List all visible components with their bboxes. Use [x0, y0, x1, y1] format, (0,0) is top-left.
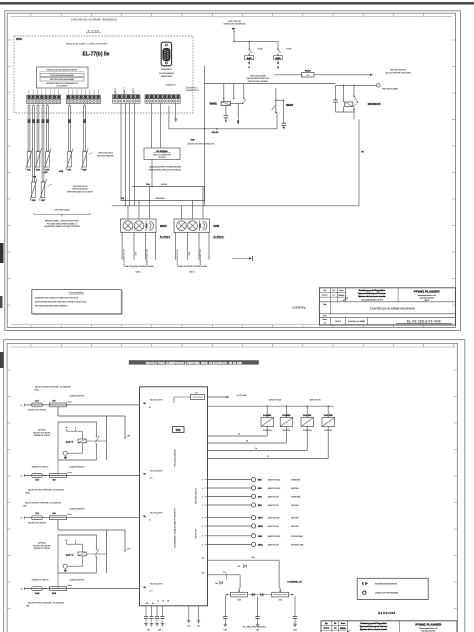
svg-text:9aB1: 9aB1	[275, 58, 281, 60]
row 3 header text	[23, 501, 61, 507]
capacitor C-E left	[223, 617, 228, 632]
svg-text:VER NAT ALARME: VER NAT ALARME	[382, 87, 398, 90]
svg-text:Ne: Ne	[333, 290, 335, 292]
svg-text:a7: a7	[149, 520, 151, 522]
svg-text:HMNOSTCHNELI + PROSTOVI MOTORU: HMNOSTCHNELI + PROSTOVI MOTORU /	[45, 221, 80, 223]
relay Pa21 E1B	[208, 406, 335, 459]
terminal strip X4	[145, 95, 180, 104]
wire top header	[233, 41, 278, 42]
node MP	[232, 28, 236, 32]
svg-text:a.75: a.75	[149, 478, 153, 480]
svg-text:Thubergabedarlehen & wird: Thubergabedarlehen & wird	[361, 298, 383, 301]
svg-text:VALOR AJUSTE: VALOR AJUSTE	[150, 512, 163, 515]
svg-text:17)1: 17)1	[176, 429, 181, 432]
svg-text:MOTOR AUXILIAR: MOTOR AUXILIAR	[72, 188, 88, 191]
svg-text:E1&7E7Ea: E1&7E7Ea	[293, 306, 306, 310]
svg-text:CAB. 1: CAB. 1	[136, 271, 142, 274]
svg-text:7 N W: 7 N W	[189, 251, 191, 256]
svg-text:K7B: K7B	[36, 170, 41, 172]
page 1 frame ticks	[31, 13, 424, 327]
svg-text:ZONA DE AJUSTE: ZONA DE AJUSTE	[69, 395, 85, 398]
svg-text:94ap: 94ap	[323, 304, 327, 306]
svg-text:DO CLIENTE: DO CLIENTE	[57, 86, 69, 88]
alarm sounder group NZ5I	[174, 187, 225, 274]
thermistor probe K7P	[44, 104, 51, 172]
svg-text:PATINE DO TRILHO: PATINE DO TRILHO	[32, 465, 49, 468]
svg-text:NKZ3tKZ5: NKZ3tKZ5	[368, 102, 381, 106]
row 2 caption	[25, 488, 64, 494]
svg-text:9ame: 9ame	[339, 290, 343, 292]
svg-text:BILLETO DO TRILHO: BILLETO DO TRILHO	[28, 410, 46, 412]
svg-text:7&B: 7&B	[145, 603, 148, 605]
client box caption	[149, 166, 182, 172]
feedback loop box b.pfe/2	[58, 535, 106, 573]
svg-text:F1a5t: F1a5t	[305, 69, 311, 72]
wire row1 drop to loop bus	[58, 407, 125, 416]
svg-text:b.pfe / 1: b.pfe / 1	[66, 441, 74, 443]
svg-text:ZASVLHECHNI EXTERNY CENTRALY.: ZASVLHECHNI EXTERNY CENTRALY. NE NA RUVO…	[35, 301, 88, 304]
svg-text:2a: 2a	[238, 434, 240, 436]
svg-text:ALB3 NOT 1: ALB3 NOT 1	[132, 88, 135, 98]
relay Pa21#N1	[208, 406, 274, 437]
svg-text:POS.FIM.TAM: POS.FIM.TAM	[291, 535, 303, 538]
page 1 outer frame	[5, 11, 461, 331]
IC left pin a.75	[144, 469, 164, 479]
svg-text:CONTROLE ALARME INCENDIO: CONTROLE ALARME INCENDIO	[71, 19, 117, 22]
svg-text:1CF: 1CF	[202, 558, 205, 560]
svg-text:98%03s: 98%03s	[340, 628, 346, 630]
svg-text:P4): P4)	[121, 197, 124, 200]
wire to ver nat motor with arrow	[314, 74, 373, 76]
wire x168.9 up	[168, 106, 170, 129]
svg-text:K8P: K8P	[83, 170, 88, 172]
page 2 outer frame	[4, 340, 465, 632]
svg-text:15B: 15B	[258, 536, 262, 538]
thermistor probe K7L	[25, 104, 32, 172]
svg-text:TEPLOTNI CIDLO: TEPLOTNI CIDLO	[73, 186, 88, 188]
wire long bus to P4	[112, 205, 359, 207]
svg-text:PRO ZARIZHENI NAPLCEN UZIVATEL: PRO ZARIZHENI NAPLCEN UZIVATEL !	[35, 305, 69, 308]
svg-text:2s: 2s	[21, 518, 23, 520]
svg-text:(BLOCO DIETRE 28 ELETRI): (BLOCO DIETRE 28 ELETRI)	[385, 72, 410, 74]
relay NKZ3tKZ5 cluster	[333, 85, 381, 120]
svg-text:SINTO PLUGADO DO: SINTO PLUGADO DO	[153, 153, 172, 156]
wire bus right vertical	[204, 187, 206, 206]
svg-text:CONTROLE ALARME INCENDIO: CONTROLE ALARME INCENDIO	[370, 306, 416, 310]
svg-text:BOLETO DO TRILHO: BOLETO DO TRILHO	[33, 432, 51, 434]
svg-text:II (+2)+5#B: II (+2)+5#B	[237, 395, 247, 397]
svg-text:MOTORE ALERTA ALARME: MOTORE ALERTA ALARME	[50, 78, 75, 81]
relay Pa21 E11	[208, 406, 314, 451]
svg-text:DESCER: DESCER	[325, 430, 333, 432]
svg-text:c47: c47	[65, 427, 68, 429]
note box UPOZORNENIA	[32, 290, 122, 315]
wire X4 to client box 2	[160, 103, 162, 148]
svg-text:DOTAHNE UCEL KABELU B! NAPOJUJ: DOTAHNE UCEL KABELU B! NAPOJUJI POUZE NA	[35, 297, 79, 300]
node P4a	[146, 183, 152, 188]
loop 2 caption	[33, 542, 51, 551]
svg-text:EN-1(231+(8181): EN-1(231+(8181)	[175, 449, 177, 466]
output pin 6E2	[208, 494, 301, 498]
capacitor C-B right	[293, 617, 298, 632]
svg-text:TEPLOTNI CIDLO: TEPLOTNI CIDLO	[98, 153, 113, 155]
svg-text:DIR.: DIR.	[26, 606, 30, 608]
svg-text:SANCYO ESQL: SANCYO ESQL	[268, 487, 281, 490]
svg-text:a.71: a.71	[149, 591, 153, 593]
wiper arrows sides	[225, 594, 294, 596]
svg-text:Systeme sind an unsere zuruckz: Systeme sind an unsere zuruckz	[360, 628, 387, 631]
svg-text:Typennachweisung und Lizenzen: Typennachweisung und Lizenzen	[358, 293, 386, 295]
svg-text:VALOR TEORICO PROFUND. DO GANC: VALOR TEORICO PROFUND. DO GANCHO	[35, 385, 72, 388]
page 2 inverted header strip	[129, 360, 259, 365]
svg-text:E: E	[362, 582, 364, 586]
terminal strip X1	[27, 95, 61, 104]
page 1 inner frame	[7, 13, 455, 327]
svg-text:Pa (N1E1B) - N1: Pa (N1E1B) - N1	[288, 582, 302, 584]
svg-text:(ZELROROVY KABEL ZOLOVAT DOZIR: (ZELROROVY KABEL ZOLOVAT DOZIROVE	[44, 225, 80, 228]
svg-text:8.1: 8.1	[333, 295, 335, 297]
controller block U1	[140, 387, 208, 606]
diode +19	[237, 565, 247, 568]
svg-text:FLS#B: FLS#B	[286, 48, 292, 50]
bracket teplotni cidlo	[34, 210, 90, 229]
IC left pin a1	[144, 399, 164, 409]
svg-text:CLIENTE: CLIENTE	[158, 157, 166, 159]
terminal strip X2	[66, 95, 100, 104]
svg-text:VER NAT MOTOR: VER NAT MOTOR	[390, 69, 406, 72]
wire center tap down	[257, 596, 259, 616]
svg-text:19a: 19a	[215, 583, 218, 585]
page 1 ruler line bottom	[11, 324, 452, 326]
wire vertical bus x125	[124, 416, 126, 551]
wire relay header	[208, 405, 335, 407]
svg-text:ZONA DE AJUSTE: ZONA DE AJUSTE	[69, 578, 85, 581]
svg-text:BILLETO DO TRILHO: BILLETO DO TRILHO	[28, 522, 46, 524]
svg-text:VAL. REAL PROF. GANCHO: VAL. REAL PROF. GANCHO	[242, 626, 266, 629]
svg-text:POS.END.TAM: POS.END.TAM	[291, 544, 304, 547]
svg-text:ALB3 ANT 1: ALB3 ANT 1	[114, 88, 117, 98]
page 2 frame ticks	[7, 343, 457, 608]
svg-text:TEPLOTNI CIDLO: TEPLOTNI CIDLO	[54, 210, 70, 212]
wire vertical bus x106	[105, 416, 107, 573]
label ver nat motor	[385, 69, 410, 75]
note teplotni cidlo motor principal	[89, 153, 114, 158]
svg-text:PATINE DO TRILHO: PATINE DO TRILHO	[34, 434, 51, 437]
measure row 1 resistors 1s7 2t7	[21, 395, 140, 412]
svg-text:8.1: 8.1	[334, 628, 336, 630]
svg-text:SANCYO DIR: SANCYO DIR	[268, 525, 280, 528]
wire X3 down 2	[124, 103, 126, 206]
svg-text:LEVANTAR: LEVANTAR	[291, 496, 301, 499]
svg-text:NZ5I: NZ5I	[214, 224, 220, 228]
svg-text:VAROVANI: VAROVANI	[155, 197, 165, 200]
IC bottom pins with caps and grounds	[144, 606, 165, 632]
svg-text:b: b	[75, 540, 76, 542]
svg-text:REGULACAO NA TAMPA FRONTAL: REGULACAO NA TAMPA FRONTAL	[47, 68, 78, 71]
page 2 inner frame	[7, 343, 457, 632]
terminal strip X3	[113, 95, 140, 104]
terminal labels above X1 X2	[29, 90, 98, 95]
list box regulacao	[37, 67, 89, 88]
svg-text:19: 19	[162, 601, 164, 603]
svg-text:LOGICA DO PROGRAMA: LOGICA DO PROGRAMA	[375, 592, 399, 595]
svg-text:ESPECIFICACAO DO CLIENTE: ESPECIFICACAO DO CLIENTE	[67, 190, 94, 193]
row 4 caption	[26, 601, 64, 607]
svg-text:VALVULA PROP. ALIMENTACAO E PR: VALVULA PROP. ALIMENTACAO E PROFUND. PRO…	[146, 362, 242, 365]
wire X3 down 4	[134, 103, 136, 206]
svg-text:2(a: 2(a	[325, 623, 328, 625]
svg-text:FLS#B: FLS#B	[257, 48, 263, 50]
svg-text:Exportgesellschaft: Exportgesellschaft	[420, 296, 434, 299]
svg-text:Pa21#M1: Pa21#M1	[282, 415, 290, 417]
svg-text:4 NKT MOTOR: 4 NKT MOTOR	[228, 21, 241, 23]
IC inner module 17)1	[173, 427, 185, 433]
svg-text:LEVANTAR: LEVANTAR	[291, 479, 301, 482]
svg-text:APLICAO: APLICAO	[38, 542, 46, 545]
measure row 2 resistors 7s8 2t8	[21, 465, 140, 481]
svg-text:CENALUS (L)UFEN POZARNU ALARM: CENALUS (L)UFEN POZARNU ALARM	[123, 265, 154, 268]
output pin 8E2	[208, 503, 300, 507]
scan top dark band	[0, 2, 474, 5]
svg-text:MB.9: MB.9	[425, 300, 429, 302]
output pin 15B	[208, 534, 304, 538]
svg-text:2b: 2b	[255, 448, 257, 450]
svg-text:AKTIVACE SANCYO: AKTIVACE SANCYO	[195, 487, 198, 504]
svg-text:9a81: 9a81	[247, 58, 253, 60]
svg-text:MOTORI ALERTA ALARME: MOTORI ALERTA ALARME	[50, 74, 74, 77]
svg-text:FRONTE PAN. OPERAD.: FRONTE PAN. OPERAD.	[248, 80, 269, 83]
svg-text:SANCYO ESQL: SANCYO ESQL	[268, 535, 281, 538]
svg-text:c47: c47	[65, 540, 68, 542]
wire horizontal y83.5	[205, 83, 336, 85]
svg-text:1t51: 1t51	[237, 599, 241, 602]
svg-text:2s: 2s	[21, 405, 23, 407]
thermistor probe K7L right	[66, 104, 73, 172]
svg-text:SANCYO ESQ: SANCYO ESQ	[268, 517, 280, 520]
svg-text:DIR.: DIR.	[23, 506, 27, 508]
feedback loop box b.pfe/1	[58, 422, 106, 460]
svg-text:VALOR AJUSTE: VALOR AJUSTE	[150, 399, 163, 402]
fuse chain 9aB1 with contact FLS-B	[274, 42, 293, 69]
wire client box to node P4a	[151, 160, 153, 187]
svg-text:DESCER: DESCER	[291, 518, 299, 520]
svg-text:PF&NZ PLASSER: PF&NZ PLASSER	[414, 289, 441, 293]
svg-text:VALOR TEORICO PROFUND. DO GANC: VALOR TEORICO PROFUND. DO GANCHO	[25, 501, 62, 504]
svg-text:LEVANTAR: LEVANTAR	[303, 429, 313, 432]
svg-text:PvZB: PvZB	[59, 171, 64, 173]
diode pair between pots	[248, 593, 272, 596]
svg-text:VALOR TEORICO PROFUND. DO GANC: VALOR TEORICO PROFUND. DO GANCHO	[28, 488, 65, 491]
svg-text:98%03s: 98%03s	[339, 295, 345, 297]
svg-text:1a: 1a	[157, 601, 159, 603]
svg-text:Q: Q	[277, 67, 279, 69]
note teplotni cidlo motor auxiliar	[48, 184, 94, 193]
svg-text:EL-77(b) IIe: EL-77(b) IIe	[83, 52, 110, 58]
svg-text:(ATRAS) VAR.PERT.VIBRACOES: (ATRAS) VAR.PERT.VIBRACOES	[187, 143, 215, 146]
svg-text:LEVANTAR: LEVANTAR	[263, 429, 273, 432]
svg-text:GIRADORES: GIRADORES	[161, 75, 173, 78]
label 17a with diode 19a	[215, 572, 227, 585]
svg-text:b: b	[75, 427, 76, 429]
page 1 subtitle	[86, 30, 101, 33]
labels above strip X3	[114, 87, 135, 98]
svg-text:55a52: 55a52	[210, 103, 218, 106]
IC bottom pins right with grounds	[187, 606, 200, 628]
svg-text:SANCYO DIR: SANCYO DIR	[268, 544, 280, 547]
installation dashed box B151	[14, 36, 193, 113]
fuse F1a5t	[275, 69, 315, 77]
svg-text:Systeme sind an unsere zuruckz: Systeme sind an unsere zuruckz	[358, 295, 385, 298]
svg-text:7 N W: 7 N W	[135, 251, 137, 256]
title block page 2 (cut off)	[321, 621, 457, 632]
wire row3 drop to loop bus	[58, 520, 125, 530]
capacitor C-5E center	[255, 617, 260, 632]
relay 55a52	[210, 84, 246, 125]
svg-text:ZONA DE AJUSTE: ZONA DE AJUSTE	[69, 508, 85, 511]
svg-text:27: 27	[267, 456, 269, 458]
svg-text:16-39.2: 16-39.2	[335, 321, 341, 323]
svg-text:SISTEMA DO MONITOR: SISTEMA DO MONITOR	[375, 582, 398, 585]
wire X3 down 3	[129, 103, 131, 206]
arrow terminal right of alarm groups	[232, 256, 252, 261]
potentiometer 1t52	[272, 590, 289, 602]
svg-text:VALOR AJUSTE: VALOR AJUSTE	[150, 469, 163, 472]
svg-text:c5am: c5am	[67, 585, 72, 587]
label ver nat alarme block	[247, 74, 270, 83]
svg-text:ZONA DE AJUSTE: ZONA DE AJUSTE	[69, 465, 85, 468]
svg-text:ESQL.: ESQL.	[25, 493, 31, 495]
svg-text:PATINE DO TRILHO: PATINE DO TRILHO	[32, 578, 49, 581]
svg-text:1B8: 1B8	[202, 572, 205, 574]
terminal 17F	[124, 548, 131, 551]
svg-text:1&a: 1&a	[187, 626, 190, 628]
svg-text:ALB7(NOT) 2: ALB7(NOT) 2	[186, 86, 197, 89]
wire loop1 bottom link	[57, 460, 59, 476]
svg-text:SANCYO ESQL: SANCYO ESQL	[268, 479, 281, 482]
svg-text:9ame: 9ame	[341, 623, 345, 625]
wire 1CF to pot 1t52	[202, 557, 281, 590]
svg-text:INSTALACAO COMPL. J UDER UCH N: INSTALACAO COMPL. J UDER UCH N RIZIG	[66, 43, 108, 46]
svg-text:BILLETO DO TRILHO: BILLETO DO TRILHO	[33, 545, 51, 547]
svg-text:ZONA MAGID. INVAL/ZONED PYINGU: ZONA MAGID. INVAL/ZONED PYINGUSY 8	[174, 507, 177, 547]
svg-text:NZ+2N: NZ+2N	[212, 132, 219, 134]
svg-text:2s: 2s	[21, 476, 23, 478]
svg-text:a1: a1	[149, 407, 151, 409]
svg-text:UPOZORNENIA :: UPOZORNENIA :	[69, 292, 85, 295]
wire left vertical x204.5	[204, 84, 206, 201]
svg-text:1t52: 1t52	[278, 599, 282, 602]
IC left pin a7	[144, 512, 164, 522]
alarm sounder group NZ5U	[121, 187, 172, 274]
output pin 8E1	[208, 486, 300, 490]
svg-text:ALARM: ALARM	[161, 183, 168, 186]
wire left wiper down	[224, 596, 226, 617]
scan left dark marks	[0, 243, 4, 263]
svg-text:EL-F3 2E5-3.F2-YNF: EL-F3 2E5-3.F2-YNF	[407, 320, 441, 324]
svg-text:c5am: c5am	[67, 514, 72, 516]
svg-text:Pa21 E1B: Pa21 E1B	[324, 415, 333, 417]
svg-text:29: 29	[246, 441, 248, 443]
terminal 17B	[124, 435, 131, 438]
svg-text:POUZIVAT OBVODOVEHO KABEL / 3: POUZIVAT OBVODOVEHO KABEL / 3	[47, 222, 77, 225]
svg-text:Na: Na	[152, 603, 154, 605]
wire NZ+2N bus	[169, 128, 277, 134]
svg-text:VER NAT ALARME: VER NAT ALARME	[250, 74, 266, 77]
svg-text:B151: B151	[16, 38, 22, 41]
potentiometer 1t51	[231, 590, 248, 602]
svg-text:DESCER: DESCER	[291, 488, 299, 490]
svg-text:CENALUS (L)UFEN POZARNU ALARM: CENALUS (L)UFEN POZARNU ALARM	[177, 265, 208, 268]
svg-text:Typennachweisung und Lizenzen: Typennachweisung und Lizenzen	[360, 626, 388, 628]
svg-text:SANCYO ESQL: SANCYO ESQL	[269, 399, 282, 402]
svg-text:VBP: VBP	[41, 200, 46, 202]
IC pin ticks right edge	[202, 479, 207, 546]
svg-text:Pa21 E11: Pa21 E11	[303, 415, 311, 417]
wire IC pin to arrow II	[208, 395, 247, 398]
output pin 15Ba	[208, 542, 304, 546]
svg-text:1:1: 1:1	[324, 322, 326, 324]
svg-text:1&a: 1&a	[197, 626, 200, 628]
loop 1 caption	[33, 429, 51, 438]
svg-text:ESQL.: ESQL.	[34, 390, 40, 392]
svg-text:A-ANE ANT 1: A-ANE ANT 1	[123, 87, 126, 98]
legend box	[357, 578, 428, 599]
svg-text:INTERFACE: INTERFACE	[161, 68, 172, 71]
svg-text:APLICAO: APLICAO	[38, 429, 46, 432]
svg-text:SANCYO DIR: SANCYO DIR	[268, 496, 280, 499]
fuse chain 9a81 with contact FLS-B	[245, 42, 264, 69]
svg-text:CANAL(A) (L)UFEN POZARNU ALARM: CANAL(A) (L)UFEN POZARNU ALARM	[149, 166, 181, 169]
wire 95a5 bottom to bus	[276, 112, 278, 128]
svg-text:15T?: 15T?	[258, 518, 263, 520]
svg-text:15B?: 15B?	[258, 526, 264, 528]
svg-text:Beachtung gesetzt Umgezahlen: Beachtung gesetzt Umgezahlen	[360, 622, 386, 625]
cable labels PvB R-1B PvZB	[33, 171, 64, 179]
IC left pin a.71	[144, 582, 164, 592]
svg-text:P/ PROGRAMAR: P/ PROGRAMAR	[159, 72, 174, 75]
svg-text:(3a-67.96 m.) 8.104/93: (3a-67.96 m.) 8.104/93	[348, 321, 365, 323]
svg-text:17a: 17a	[223, 572, 226, 574]
svg-text:AL-37503: AL-37503	[88, 30, 100, 33]
svg-text:CAB. 2: CAB. 2	[189, 271, 195, 274]
relay 95a5	[272, 88, 294, 129]
svg-text:MOTOR PRINCIPAL: MOTOR PRINCIPAL	[97, 154, 114, 157]
thermistor probe VBP	[39, 104, 46, 203]
output pin 15T?	[208, 516, 300, 520]
thermistor probe VB1	[30, 104, 37, 203]
client box EL-YTNrBa	[144, 148, 180, 160]
svg-text:P4B: P4B	[191, 138, 195, 141]
measure row 3 resistors 7s9 2t9	[21, 508, 140, 525]
svg-text:UERDALDO DA PARTIDA: UERDALDO DA PARTIDA	[223, 23, 246, 26]
svg-text:E1V9I456: E1V9I456	[378, 611, 396, 615]
wire right wiper down	[294, 596, 296, 617]
svg-text:SERVO FIM: SERVO FIM	[196, 529, 198, 539]
svg-text:b.pfe / 2: b.pfe / 2	[66, 554, 74, 556]
svg-text:DESCER: DESCER	[283, 430, 291, 432]
svg-text:PF&NZ PLASSER: PF&NZ PLASSER	[415, 622, 442, 626]
svg-text:95a5?: 95a5?	[286, 104, 294, 107]
svg-text:SANCYO DIR: SANCYO DIR	[309, 399, 321, 402]
IC bottom pin labels	[145, 601, 168, 606]
label +B NAT MOTOR	[223, 21, 246, 26]
wire X4 to client box 1	[151, 103, 153, 148]
wire X3 down-left	[120, 103, 122, 200]
svg-text:ALB3(ANT) 1: ALB3(ANT) 1	[166, 84, 177, 87]
wire alarm bus	[132, 183, 205, 187]
wire loop2 bottom link	[57, 573, 59, 589]
svg-text:Pa21#N1: Pa21#N1	[263, 415, 271, 417]
